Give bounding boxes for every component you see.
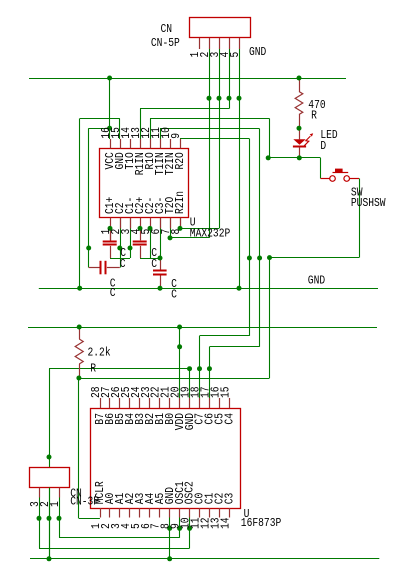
junction CN3 pin2: [47, 516, 52, 521]
pin 28 16F873P: [100, 398, 102, 408]
pin 16 16F873P: [219, 398, 221, 408]
wire MAX pin15 riser: [119, 118, 121, 139]
resistor R 470: [295, 78, 303, 128]
svg-text:9: 9: [169, 133, 183, 139]
pin 7 MAX232: [170, 218, 172, 229]
junction MAX pin4: [138, 226, 143, 231]
wire MAX pin10 T2IN line: [160, 128, 260, 130]
svg-text:CN-3P: CN-3P: [70, 495, 99, 509]
junction PIC pin8: [167, 526, 172, 531]
wire CN3 pin3 down: [39, 498, 41, 549]
junction CN3 pin1: [57, 516, 62, 521]
pin 1 CN-3P: [59, 488, 61, 498]
capacitor C (pin1 C1+): [103, 228, 117, 258]
wire C1 bottom link: [110, 258, 130, 260]
junction GND rail / bus: [77, 286, 82, 291]
pin 1 MAX232: [110, 218, 112, 229]
pin 19 16F873P: [189, 398, 191, 408]
pin 14 MAX232: [130, 139, 132, 149]
pin 13 16F873P: [219, 508, 221, 518]
wire PIC pin8 GND drop: [169, 518, 171, 559]
junction CN5 / GND bus: [237, 286, 242, 291]
pin 3 CN-3P: [39, 488, 41, 498]
connector CN CN-3P: [30, 468, 70, 488]
junction VCC bus / MAX16: [107, 76, 112, 81]
svg-text:8: 8: [169, 229, 183, 235]
svg-text:CN-5P: CN-5P: [151, 36, 180, 50]
wire MAX pin7 T2O line: [170, 237, 209, 239]
junction PIC pin10: [187, 526, 192, 531]
pin 11 16F873P: [199, 508, 201, 518]
junction pin17 joint: [207, 366, 212, 371]
pin 8 16F873P: [169, 508, 171, 518]
pin 13 MAX232: [140, 139, 142, 149]
wire step to PIC pin17: [209, 346, 259, 348]
svg-text:1: 1: [48, 501, 62, 507]
wire PIC pin17 drop: [209, 347, 211, 398]
connector CN CN-5P: [190, 18, 251, 38]
junction R2O line: [247, 256, 252, 261]
pin 9 MAX232: [180, 139, 182, 149]
wire MAX pin13 R1IN to CN pin4: [140, 108, 229, 110]
pin 20 16F873P: [179, 398, 181, 408]
svg-text:CN: CN: [161, 22, 173, 36]
pin 6 16F873P: [149, 508, 151, 518]
junction CN5: [237, 96, 242, 101]
wire MAX pin8 R2IN line: [180, 228, 219, 230]
pin 5 MAX232: [150, 218, 152, 229]
wire CN3 pin2 GND: [49, 498, 51, 559]
pin 3 16F873P: [119, 508, 121, 518]
pin 11 MAX232: [160, 139, 162, 149]
wire MAX pin15 GND link: [80, 118, 120, 120]
wire PIC pin18 drop: [199, 336, 201, 398]
svg-text:C: C: [171, 287, 177, 301]
wire MAX pin3 down: [130, 218, 132, 258]
wire MAX pin7 down: [170, 218, 172, 238]
pin 15 MAX232: [120, 139, 122, 149]
pin 2 CN-3P: [49, 488, 51, 498]
junction bus2 / VDD: [177, 325, 182, 330]
wire CN pin2 to MAX pin7 net: [209, 49, 211, 238]
junction pin3 branch: [128, 246, 133, 251]
junction pin6 cap: [158, 256, 163, 261]
svg-text:PUSHSW: PUSHSW: [351, 196, 386, 210]
wire bottom GND bus: [30, 558, 379, 560]
wire MAX pin12 R1O line: [150, 118, 269, 120]
pin 17 16F873P: [209, 398, 211, 408]
svg-text:R2O: R2O: [173, 152, 187, 169]
pin 26 16F873P: [119, 398, 121, 408]
pin 8 MAX232: [180, 218, 182, 229]
LED D: [293, 128, 313, 158]
svg-text:5: 5: [228, 52, 242, 58]
junction MAX pin8: [178, 226, 183, 231]
junction VDD joint: [177, 344, 182, 349]
svg-text:16F873P: 16F873P: [241, 516, 281, 530]
wire T2IN vertical: [259, 129, 261, 347]
wire step to PIC pin18: [200, 335, 250, 337]
pin 14 16F873P: [229, 508, 231, 518]
pin 12 16F873P: [209, 508, 211, 518]
pin 5 CN-5P: [239, 38, 241, 49]
pin 4 16F873P: [129, 508, 131, 518]
wire VCC to MAX pin16: [109, 78, 111, 139]
svg-text:C3: C3: [223, 493, 237, 505]
wire +V lower bus: [28, 327, 377, 329]
pin 21 16F873P: [169, 398, 171, 408]
wire OSC2 line: [39, 548, 190, 550]
wire MAX pin10 riser: [160, 129, 162, 139]
pin 15 16F873P: [229, 398, 231, 408]
junction PIC GND / bottom bus: [167, 556, 172, 561]
pin 25 16F873P: [129, 398, 131, 408]
junction CN2: [207, 96, 212, 101]
pin 4 CN-5P: [229, 38, 231, 49]
wire VCC branch down to cap C left: [88, 128, 90, 267]
pin 16 MAX232: [110, 139, 112, 149]
wire OSC1 line: [59, 537, 180, 539]
junction MAX pin5: [148, 226, 153, 231]
pin 2 MAX232: [120, 218, 122, 229]
pin 24 16F873P: [139, 398, 141, 408]
IC U 16F873P body: [91, 409, 241, 509]
pin 18 16F873P: [199, 398, 201, 408]
wire +V top bus: [29, 78, 346, 80]
wire PIC pin9 drop: [179, 518, 181, 538]
svg-text:C: C: [120, 257, 126, 271]
junction switch return: [267, 255, 272, 260]
svg-text:C: C: [110, 286, 116, 300]
junction pin2 branch: [117, 246, 122, 251]
pin 3 MAX232: [130, 218, 132, 229]
pin 1 CN-5P: [199, 38, 201, 49]
wire PIC pin19 drop: [189, 369, 191, 398]
junction PIC pin9: [177, 526, 182, 531]
junction R2.2k / MCLR: [76, 376, 81, 381]
junction T2IN line: [257, 256, 262, 261]
op-amp U MAX232P body: [100, 149, 189, 218]
junction bus / R470: [297, 76, 302, 81]
svg-text:GND: GND: [308, 274, 325, 288]
wire VDD to PIC pin20: [179, 327, 181, 398]
wire MAX pin2 to cap C: [120, 218, 122, 268]
svg-text:R: R: [90, 361, 96, 375]
pin 3 CN-5P: [219, 38, 221, 49]
junction GND feed joint: [47, 455, 52, 460]
svg-text:D: D: [320, 139, 326, 153]
svg-text:R: R: [311, 109, 317, 123]
pin 4 MAX232: [140, 218, 142, 229]
junction CN3 pin3: [37, 516, 42, 521]
wire MAX pin8 down: [180, 218, 182, 229]
wire MAX pin12 riser: [150, 118, 152, 139]
pin 10 MAX232: [170, 139, 172, 149]
wire VCC branch to cap: [89, 128, 110, 130]
pin 2 CN-5P: [209, 38, 211, 49]
capacitor C (pin4 C2+): [133, 228, 147, 258]
wire C2 bottom link: [140, 258, 160, 260]
resistor R 2.2k: [75, 327, 83, 378]
pin 2 16F873P: [109, 508, 111, 518]
svg-text:14: 14: [218, 517, 232, 529]
wire MCLR pullup line: [79, 378, 270, 380]
junction LED node left: [266, 155, 271, 160]
wire CN pin5 to GND bus: [239, 49, 241, 288]
junction VSS line / pin19: [187, 366, 192, 371]
wire R2O vertical: [249, 139, 251, 336]
pin 5 16F873P: [139, 508, 141, 518]
wire switch return to MCLR line: [269, 258, 271, 378]
wire CN pin4 to MAX pin13 net: [229, 49, 231, 109]
junction pin18 joint: [197, 366, 202, 371]
junction LED cathode: [297, 155, 302, 160]
wire GND left rail: [79, 118, 81, 288]
svg-text:15: 15: [218, 386, 232, 398]
wire CN3 pin1 down: [59, 498, 61, 538]
junction MAX pin7: [168, 235, 173, 240]
wire MCLR down: [78, 378, 80, 518]
junction MAX pin1: [108, 226, 113, 231]
pin 10 16F873P: [189, 508, 191, 518]
junction VCC branch: [107, 126, 112, 131]
capacitor C horizontal: [89, 261, 120, 275]
wire GND feed down: [49, 369, 51, 559]
wire GND bus: [39, 288, 378, 290]
pin 27 16F873P: [109, 398, 111, 408]
pin 9 16F873P: [179, 508, 181, 518]
junction R/LED: [297, 126, 302, 131]
wire LED cathode node: [268, 157, 320, 159]
svg-text:C: C: [151, 257, 157, 271]
pin 22 16F873P: [159, 398, 161, 408]
wire MCLR to PIC pin1: [79, 518, 100, 520]
wire switch return down: [359, 178, 361, 257]
wire to switch: [320, 158, 322, 179]
pushbutton switch SW: [321, 169, 360, 182]
capacitor C (pin6): [153, 258, 167, 288]
junction left cap branch: [86, 246, 91, 251]
junction CN4: [227, 96, 232, 101]
junction cap / GND bus: [158, 286, 163, 291]
wire CN pin3 to MAX pin8 net: [219, 49, 221, 228]
wire MAX pin13 riser: [140, 109, 142, 139]
pin 1 16F873P: [100, 508, 102, 518]
svg-text:MAX232P: MAX232P: [190, 227, 231, 241]
pin 12 MAX232: [150, 139, 152, 149]
wire R1O down to LED node: [269, 118, 271, 157]
pin 7 16F873P: [159, 508, 161, 518]
wire MAX pin6 down: [160, 218, 162, 260]
svg-text:C4: C4: [223, 413, 237, 425]
wire MAX pin9 riser: [180, 138, 182, 140]
svg-text:GND: GND: [249, 45, 266, 59]
wire MAX pin9 R2O line: [180, 138, 249, 140]
wire MAX pin5 down: [150, 228, 152, 258]
svg-text:2.2k: 2.2k: [88, 345, 111, 359]
wire PIC pin19 VSS line: [49, 368, 190, 370]
pin 6 MAX232: [160, 218, 162, 229]
junction bus2 / R2.2k: [77, 325, 82, 330]
junction CN3: [217, 96, 222, 101]
junction GND feed / bottom bus: [47, 556, 52, 561]
svg-text:R2In: R2In: [173, 191, 187, 214]
pin 23 16F873P: [149, 398, 151, 408]
wire PIC pin10 drop: [189, 518, 191, 549]
wire switch return across: [270, 257, 360, 259]
